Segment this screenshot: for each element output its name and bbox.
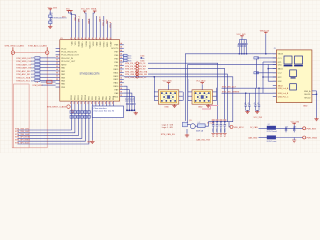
svg-text:PB0: PB0 (96, 96, 98, 100)
svg-text:VDD_IO: VDD_IO (89, 41, 91, 49)
svg-text:SBU2: SBU2 (278, 85, 283, 87)
wire J1 right down to ground (316, 91, 318, 118)
wire U1 pin to cap column x=131.9 (124, 93, 132, 102)
ground bottom center-left (90, 140, 94, 143)
wire resistor to U1 pin row 7 (40, 76, 56, 78)
svg-text:USB_Lnk_A: USB_Lnk_A (278, 87, 289, 90)
power symbol VCC_3V3 mid (83, 11, 87, 13)
svg-text:PC15-OSC32_OUT: PC15-OSC32_OUT (61, 55, 79, 57)
power symbol VCC_5V0 (292, 123, 296, 125)
wire MK2 right rail (216, 88, 218, 101)
resistor R30 CC1 pulldown (254, 57, 259, 59)
wire label to L3 (259, 137, 268, 139)
svg-text:VDDIO: VDDIO (99, 15, 101, 22)
MK1 inner footprint outline (161, 91, 177, 102)
MEMS microphone MK1 body (158, 90, 179, 104)
pin number top (96, 38, 98, 39)
J1 right pin stubs (312, 91, 317, 94)
svg-text:I2S_WS: I2S_WS (139, 66, 147, 68)
svg-text:Logic 0 : DIS: Logic 0 : DIS (162, 124, 174, 126)
wire U1 top pin x=82.4 (81, 19, 83, 40)
wire R27 to ground (49, 24, 51, 26)
svg-text:GND: GND (164, 107, 169, 109)
svg-text:PB10: PB10 (71, 95, 73, 100)
svg-text:100n: 100n (133, 98, 135, 102)
wire resistor to U1 pin row 4 (40, 67, 56, 69)
svg-text:STM_SWD_CLASS: STM_SWD_CLASS (5, 45, 25, 48)
blanket region STM_UART_CLASS (14, 84, 30, 148)
capacitor bank C30-C33 (212, 121, 226, 133)
svg-text:PA6: PA6 (102, 96, 105, 99)
wire stub gnd row2 (293, 138, 295, 141)
red stem to directive left (12, 47, 14, 51)
svg-text:VREF+: VREF+ (82, 41, 84, 48)
resistor R31 CC2 pulldown (254, 72, 259, 74)
MK2 pin stubs (188, 92, 217, 101)
wire C8 row to U1 (41, 81, 56, 83)
svg-text:5V_CAN: 5V_CAN (250, 126, 258, 129)
wire U1 bottom pin 1 to STM_TIM_CH1 (18, 120, 72, 130)
wire VCC to R boot (49, 11, 51, 15)
svg-text:STM_NRST_CLASS: STM_NRST_CLASS (47, 106, 67, 109)
svg-text:VDD2: VDD2 (100, 41, 102, 46)
svg-text:STM_I2C_SDA: STM_I2C_SDA (16, 76, 31, 79)
svg-text:C36: C36 (293, 126, 296, 128)
wire vertical CC pull x256 (256, 58, 258, 88)
svg-text:USB_Lnk_B: USB_Lnk_B (278, 93, 289, 95)
svg-text:GND: GND (303, 105, 308, 107)
series resistor R14 (35, 70, 40, 72)
svg-text:GND: GND (198, 107, 203, 109)
svg-text:PC13: PC13 (61, 48, 67, 50)
MK2 inner footprint outline (194, 91, 210, 102)
wire into J1 DN2 (268, 80, 276, 82)
svg-text:PF0-OSC_IN: PF0-OSC_IN (61, 58, 73, 60)
svg-text:GND_A: GND_A (304, 90, 311, 93)
J1 shield square graphic 2 (295, 56, 303, 64)
pin number top (103, 38, 105, 39)
net identifier boxes row 1 on bottom wires (70, 111, 90, 114)
wire driver up to J1 DP row (188, 64, 276, 122)
wire U1 bottom pin 2 to STM_TIM_CH2 (18, 120, 75, 133)
wire Q1 emitter down (186, 129, 188, 134)
wire U1 top pin x=103.8 (103, 16, 105, 40)
power symbol VCC_3V3 (48, 9, 52, 11)
junction CC2 (256, 72, 257, 73)
capacitor cluster C11-C14 designators (126, 98, 135, 102)
svg-text:PD3: PD3 (113, 96, 115, 100)
wire VCC_5V0 to row (293, 125, 295, 129)
pin number left (56, 69, 58, 70)
svg-text:PB2: PB2 (89, 96, 91, 100)
wire STM_USB_DP right and down (124, 77, 233, 122)
power symbol VCC_3V3 right (240, 36, 244, 38)
capacitor pair bank C26 C27 (254, 88, 260, 110)
J1 left pin stubs (273, 54, 277, 97)
svg-text:VDD: VDD (72, 41, 74, 46)
pin number top (78, 38, 80, 39)
wire resistor to U1 pin row 1 (40, 57, 56, 59)
capacitor bank C30-C33 designators (212, 119, 227, 121)
wire into J1 CC2 (257, 72, 277, 74)
ground under PWR row (292, 140, 296, 143)
svg-text:VDDA: VDDA (78, 41, 81, 47)
wire MK1 right rail (182, 92, 184, 101)
ground caps pair B (255, 111, 259, 114)
svg-text:3V3: 3V3 (62, 16, 65, 18)
svg-text:USB_Pwr_C: USB_Pwr_C (278, 96, 289, 99)
junction C35 (285, 128, 286, 129)
pin number top (71, 38, 73, 39)
wire U1 pin to cap column x=127.0 (124, 86, 127, 102)
directive circle right (46, 51, 49, 54)
svg-text:STM_CAN_SIL: STM_CAN_SIL (161, 133, 176, 136)
wire STM_USB_DM right and down (148, 74, 227, 122)
svg-text:STM_SWD_DIO: STM_SWD_DIO (16, 58, 31, 60)
series resistor R17 (35, 79, 40, 81)
note text box (92, 106, 123, 118)
svg-text:2n2: 2n2 (71, 112, 74, 114)
svg-text:I2S_SD: I2S_SD (139, 69, 146, 71)
series resistor R16 (35, 76, 40, 78)
wire U1 top pin x=100.2 (99, 19, 101, 40)
svg-text:Logic 1 : EN: Logic 1 : EN (162, 127, 173, 129)
svg-text:DCDC conv: DCDC conv (267, 141, 277, 143)
pin number top (99, 38, 101, 39)
J1 left pin names (278, 54, 289, 99)
port circle STM_USB_DM (136, 73, 139, 76)
svg-text:VSS_3: VSS_3 (103, 20, 105, 26)
svg-text:Close interface: Close interface (93, 107, 107, 110)
MEMS microphone MK2 body (192, 90, 213, 104)
pin number top (88, 38, 90, 39)
wire label to L2 (259, 127, 268, 129)
junction J1 wire A (245, 93, 246, 94)
wire STM_I2S_CK right and down (148, 63, 218, 121)
J1 shield square 1 bar (284, 65, 293, 67)
pin number left (56, 56, 58, 57)
svg-text:PF1-OSC_OUT: PF1-OSC_OUT (61, 61, 76, 63)
svg-text:100n: 100n (220, 128, 222, 132)
svg-text:VCAP: VCAP (110, 41, 113, 47)
J1 lower pad outline (290, 84, 297, 90)
wire node BOOT0 stub (50, 17, 53, 19)
svg-text:STM_UART_RX: STM_UART_RX (16, 67, 32, 70)
wire MK1 left rail (153, 77, 155, 101)
svg-text:PA4: PA4 (109, 96, 112, 99)
port circle STM_I2S_SD (136, 67, 139, 70)
capacitor C35 (285, 128, 287, 132)
capacitor bank C20-C23 (238, 40, 248, 55)
svg-text:STM_ADC_IN0: STM_ADC_IN0 (16, 70, 31, 73)
svg-text:1u: 1u (248, 102, 250, 104)
blanket region STM_SWD_CLASS (12, 53, 47, 148)
svg-text:600R 1A: 600R 1A (196, 130, 204, 133)
wire driver up to J1 VBUS row (185, 54, 272, 121)
series resistor R13 (35, 66, 40, 68)
pin number top (106, 38, 108, 39)
highlighted wire CAN pair (202, 106, 218, 110)
transistor Q1 circle (190, 124, 195, 129)
cap bank bus (213, 121, 233, 123)
svg-text:100n: 100n (213, 128, 215, 132)
svg-text:STM_I2S_SD: STM_I2S_SD (125, 69, 137, 71)
ground right edge (314, 118, 318, 121)
power symbol VCC pair A (67, 11, 71, 13)
svg-text:SHLD2: SHLD2 (304, 98, 310, 100)
port circle STM_USB_DP (136, 76, 139, 79)
svg-text:VREF+: VREF+ (89, 17, 91, 24)
svg-text:Q1: Q1 (189, 120, 192, 122)
junction MK1 rail (154, 76, 155, 77)
wire vertical x268 (267, 64, 269, 81)
wire VBUS down to junction (265, 34, 267, 54)
wire L2 to port PWR (276, 127, 303, 129)
wire STM_I2S_SD right and down (148, 69, 225, 122)
svg-text:CC1: CC1 (278, 58, 282, 60)
svg-text:STM_UART_TX: STM_UART_TX (16, 63, 31, 66)
U1 bottom pin names vertical (71, 95, 115, 100)
power symbol VCC pair B (69, 11, 73, 13)
wire U1 top pin 7 to VDDA bar (93, 11, 95, 40)
svg-text:DP2: DP2 (278, 77, 282, 79)
svg-text:VREF-: VREF- (107, 41, 109, 47)
wire U1 bottom pin 3 to STM_TIM_CH3 (18, 120, 79, 136)
wire STM_NRST to U1 (42, 84, 56, 86)
wire VCC to cap bank (241, 37, 243, 39)
MK2 pads (195, 92, 210, 102)
junction J1 wire B (258, 88, 259, 89)
wire LED_GREEN to J1 (222, 92, 277, 94)
wire Q1 to circle (187, 123, 190, 125)
port circle STM_I2S_CK (136, 62, 139, 65)
wire into J1 SBU1 (268, 68, 276, 70)
wire L1 up to cap bank bus (205, 122, 213, 127)
wire U1 top pin 2 to VCC bar (71, 11, 75, 40)
svg-text:VDD_1: VDD_1 (75, 15, 77, 21)
svg-text:1u: 1u (258, 102, 260, 104)
svg-text:C35: C35 (285, 126, 288, 128)
wire into J1 pin 1 (272, 53, 276, 55)
wire MK2 left rail (187, 79, 189, 101)
ground caps pair A (245, 111, 249, 114)
series resistor R10 (35, 57, 40, 59)
U1 top pin names vertical (72, 41, 113, 49)
U1 right pin numbers (120, 43, 122, 96)
microcontroller U1 STM32 body (60, 40, 120, 101)
cap bank top bus (239, 39, 246, 41)
svg-text:SBU1: SBU1 (278, 69, 283, 71)
wire U1 top pin x=110.9 (110, 23, 112, 40)
wire U1 top pin x=89.5 (89, 19, 91, 40)
junction SBU1 (268, 68, 269, 69)
svg-text:PB13: PB13 (82, 95, 84, 100)
pin number top (81, 38, 83, 39)
svg-text:STM_I2C_SCL: STM_I2C_SCL (16, 81, 31, 83)
grounds under C30-C33 (211, 134, 226, 137)
svg-text:L2: L2 (268, 124, 270, 126)
wire U1 bottom pin 5 to STM_SPI_MISO (18, 120, 86, 141)
junction VBUS (265, 53, 266, 54)
transistor Q1 body (183, 122, 188, 127)
svg-text:CAN_GND: CAN_GND (248, 137, 258, 140)
junction C36 (294, 128, 295, 129)
wire into J1 CC1 (257, 57, 277, 59)
svg-text:CAN_5V0_TRX: CAN_5V0_TRX (196, 139, 211, 142)
svg-text:STM_SWD_CLK: STM_SWD_CLK (16, 61, 32, 63)
svg-text:VSS_4: VSS_4 (110, 22, 112, 28)
port circle VDD_MCU (230, 125, 233, 128)
wire Q1 out to L1 (195, 125, 198, 127)
net identifier boxes row 2 on bottom wires (70, 115, 90, 118)
series resistor R15 (35, 73, 40, 75)
svg-text:VBAT: VBAT (96, 41, 99, 47)
svg-text:if not used. See Doc Nr: if not used. See Doc Nr (93, 109, 114, 112)
port circle STM_I2S_WS (136, 65, 139, 68)
wire bus down to port VDD_MCU (229, 122, 230, 127)
J1 center pad outline (290, 70, 297, 77)
svg-text:VCC_AUD: VCC_AUD (196, 79, 206, 82)
svg-text:LED_STA: LED_STA (139, 70, 148, 73)
pin number left (56, 75, 58, 76)
pin number left (56, 66, 58, 67)
svg-text:STM_I2S_CK: STM_I2S_CK (125, 63, 137, 65)
svg-text:1u: 1u (244, 102, 246, 104)
directive circle left (11, 51, 14, 54)
svg-text:PWR_GND5: PWR_GND5 (306, 138, 317, 140)
svg-text:DN2: DN2 (278, 81, 282, 83)
svg-text:PB12: PB12 (78, 95, 80, 100)
MK1 pads (161, 92, 176, 102)
junction row 2 (141, 57, 142, 58)
wire U1 pin to cap column x=129.4 (124, 90, 130, 103)
power symbol above MK1 (167, 83, 171, 85)
svg-text:L1: L1 (198, 122, 200, 124)
wire resistor to U1 pin row 3 (40, 63, 56, 65)
pin number top (74, 38, 76, 39)
U1 right pin names (111, 45, 119, 99)
svg-text:PA7: PA7 (98, 96, 101, 99)
svg-text:PA5: PA5 (105, 96, 108, 99)
power symbol above MK2 (200, 83, 204, 85)
svg-text:VSS_1: VSS_1 (79, 16, 81, 22)
wire U1 top pin x=96.7 (96, 16, 98, 40)
svg-text:VBUS: VBUS (278, 54, 284, 56)
pin number top (92, 38, 94, 39)
wire U1 bottom pin 6 to STM_SPI_SCK (18, 120, 89, 144)
pin number left (56, 62, 58, 63)
junction DP2 (262, 76, 263, 77)
svg-text:R16: R16 (128, 60, 131, 62)
svg-text:VSSIO: VSSIO (104, 41, 106, 47)
wire U1 top pin 1 to VCC bar (68, 11, 71, 40)
wire vertical CC pull x263 (262, 62, 264, 93)
svg-text:STM_BOOT0: STM_BOOT0 (54, 18, 67, 20)
resistor R16 (124, 59, 128, 61)
svg-text:VDDA: VDDA (91, 7, 97, 10)
wire into J1 DP2 (263, 76, 276, 78)
capacitor cluster C11-C14 (126, 102, 136, 111)
power symbol VDDA (93, 11, 97, 13)
wire resistor to U1 pin row 2 (40, 60, 56, 62)
wire L3 to port GND (276, 137, 303, 139)
pin number left (56, 72, 58, 73)
ground under MK2 (206, 104, 210, 107)
wires through identifier boxes (71, 107, 89, 120)
wire LED_ACT to J1 (222, 87, 277, 89)
ferrite bead L1 body (198, 124, 206, 128)
svg-text:PC14-OSC32_IN: PC14-OSC32_IN (61, 52, 77, 54)
svg-text:BOOT0: BOOT0 (111, 48, 119, 50)
wire pin 7 down to ground (91, 107, 93, 140)
wire resistor to U1 pin row 5 (40, 70, 56, 72)
svg-text:VSSA: VSSA (85, 41, 88, 47)
pin number top (110, 38, 112, 39)
wire R26 to node BOOT0 (49, 18, 51, 22)
resistor R27 (49, 21, 52, 24)
pin number top (85, 38, 87, 39)
J1 shield square 2 bar (294, 65, 303, 67)
svg-text:VCC: VCC (66, 8, 71, 10)
U1 right pin stubs (120, 45, 124, 97)
ferrite bead L2 body (267, 126, 276, 130)
wire resistor to U1 pin row 8 (40, 80, 56, 82)
junction right edge (316, 94, 317, 95)
wire resistor to U1 pin row 6 (40, 73, 56, 75)
pin number left (56, 79, 58, 80)
svg-text:VBAT: VBAT (106, 18, 109, 24)
series resistor R12 (35, 63, 40, 65)
U1 left pin stubs (56, 48, 60, 87)
wire VCC to MK1 (168, 84, 170, 89)
port circle STM_LED_STA (136, 70, 139, 73)
svg-text:PB11: PB11 (75, 95, 77, 99)
svg-text:1u: 1u (254, 102, 256, 104)
svg-text:PWR_IN5V: PWR_IN5V (306, 128, 316, 130)
svg-text:100n: 100n (224, 128, 226, 132)
resistor R26 (49, 15, 52, 18)
ferrite bead L3 body (267, 136, 276, 140)
directive circle NRST (67, 105, 70, 108)
capacitor C36 (293, 128, 295, 132)
wire into J1 DP1 (263, 61, 276, 63)
svg-text:PB1: PB1 (92, 96, 94, 100)
wire U1 bottom pin 4 to STM_SPI_MOSI (18, 120, 82, 138)
wire U1 top pin 5 to VCC_3V3 bar (85, 11, 86, 40)
svg-text:100n: 100n (217, 128, 219, 132)
red stem to directive right (46, 47, 48, 51)
series resistor R11 (35, 60, 40, 62)
port circle PWR_IN (303, 127, 306, 130)
wire U1 top pin x=107.4 (106, 21, 108, 40)
power symbol VBUS_5V (264, 32, 268, 34)
svg-text:STM_ADC_IN1: STM_ADC_IN1 (16, 73, 31, 76)
svg-text:PB14: PB14 (85, 95, 87, 100)
wire joint MK1 (153, 76, 155, 78)
svg-text:DCDC bead: DCDC bead (267, 131, 277, 133)
svg-text:CC2: CC2 (278, 73, 282, 75)
wire U1 top pin x=78.9 (78, 19, 80, 40)
svg-text:USB_DM: USB_DM (139, 74, 147, 76)
pin number left (56, 59, 58, 60)
wire VCC to MK2 (201, 84, 203, 89)
ground under MK1 (172, 104, 176, 107)
svg-text:VSS2: VSS2 (93, 41, 95, 46)
svg-text:VCC_3V3: VCC_3V3 (254, 117, 262, 119)
svg-text:VCC_AUD: VCC_AUD (163, 79, 173, 82)
wire U1 pin to cap column x=134.4 (124, 97, 135, 103)
svg-text:100n: 100n (140, 60, 144, 62)
